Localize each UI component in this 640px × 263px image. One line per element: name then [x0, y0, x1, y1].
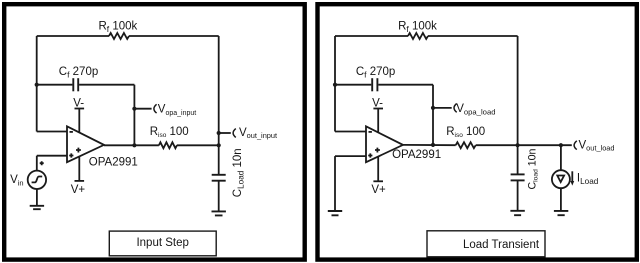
wire feedback right vertical — [218, 36, 220, 145]
pin V- t-bar (right) — [373, 108, 383, 110]
right panel frame — [318, 4, 637, 259]
ground (I_Load) — [554, 211, 568, 215]
wire noninverting input — [37, 155, 67, 157]
wire C_load top (right panel) — [517, 145, 519, 174]
pin V+ t-bar (right) — [373, 180, 383, 182]
node output junction dot (right panel) — [516, 143, 520, 147]
wire feedback top right segment — [129, 35, 219, 37]
wire noninverting ground vertical — [334, 156, 336, 211]
Input Step box — [109, 231, 216, 256]
svg-text:Vin: Vin — [10, 174, 24, 187]
svg-text:Rf 100k: Rf 100k — [398, 20, 437, 34]
left panel frame — [4, 4, 305, 259]
wire C_f right (right panel) — [378, 84, 433, 86]
svg-text:V-: V- — [73, 97, 84, 109]
wire V_opa_load tap — [433, 107, 452, 109]
source V_in waveform — [32, 177, 43, 183]
svg-text:V-: V- — [372, 97, 383, 109]
capacitor C_f — [72, 78, 74, 91]
svg-text:Vopa_load: Vopa_load — [456, 103, 495, 116]
svg-text:Cf 270p: Cf 270p — [59, 66, 98, 80]
svg-text:Riso 100: Riso 100 — [446, 126, 485, 139]
terminal V_out_load — [574, 141, 577, 150]
wire V_out_input tap — [219, 132, 231, 134]
ground (C_load right) — [510, 211, 524, 215]
op-amp minus mark — [70, 131, 73, 133]
svg-text:Cload 10n: Cload 10n — [526, 148, 539, 189]
wire feedback right vertical (right panel) — [517, 36, 519, 145]
node output junction dot — [217, 143, 221, 147]
wire source top — [36, 156, 38, 171]
pin V+ t-bar — [75, 180, 85, 182]
junction dot C_f left — [35, 83, 39, 87]
wire C_f right — [79, 84, 134, 86]
wire feedback top left segment — [37, 35, 109, 37]
source V_in circle — [28, 171, 46, 189]
svg-text:V+: V+ — [371, 184, 386, 196]
svg-text:ILoad: ILoad — [577, 173, 599, 187]
resistor R_iso (left) — [159, 142, 177, 148]
wire inverting input (right panel) — [335, 131, 366, 133]
resistor R_f (right) — [408, 33, 428, 39]
svg-text:Vopa_input: Vopa_input — [158, 104, 196, 117]
pin V+ line (right) — [377, 156, 379, 181]
source polarity plus mark — [40, 161, 44, 165]
svg-text:Vout_load: Vout_load — [579, 139, 615, 152]
op-amp plus input mark (right) — [368, 153, 372, 157]
wire source bottom — [36, 189, 38, 206]
pin V- line — [78, 109, 80, 133]
terminal V_opa_load — [454, 104, 457, 113]
wire feedback top left segment (right panel) — [335, 35, 408, 37]
ground (noninverting input) — [328, 211, 342, 215]
capacitor C_load (right) — [511, 173, 525, 175]
op-amp plus supply mark — [76, 148, 81, 153]
terminal V_out_input — [233, 129, 236, 138]
current source I_Load arrow symbol — [557, 176, 564, 183]
wire C_load bottom (right panel) — [517, 180, 519, 210]
wire noninverting input (right panel) — [335, 155, 366, 157]
pin V+ line — [78, 156, 80, 181]
resistor R_f (left) — [109, 33, 129, 39]
op-amp U1 OPA2991 triangle — [67, 126, 104, 162]
ground (C_load left) — [212, 211, 226, 215]
wire feedback top right segment (right panel) — [428, 35, 518, 37]
wire inverting input — [37, 131, 67, 133]
wire I_load bottom — [560, 188, 562, 211]
svg-text:OPA2991: OPA2991 — [392, 149, 441, 161]
wire V_opa vertical — [133, 85, 135, 146]
wire inverting vertical — [36, 36, 38, 132]
node V_opa_input junction dot — [132, 107, 136, 111]
wire C_load top — [218, 145, 220, 175]
svg-text:Rf 100k: Rf 100k — [98, 20, 137, 34]
capacitor C_load (left) — [212, 174, 226, 176]
wire output right — [177, 144, 219, 146]
terminal V_opa_input — [154, 104, 157, 113]
wire C_f left (right panel) — [335, 84, 371, 86]
wire C_f left — [37, 84, 73, 86]
pin V- line (right) — [377, 109, 379, 133]
svg-text:OPA2991: OPA2991 — [89, 156, 138, 168]
wire C_load bottom — [218, 181, 220, 212]
junction dot C_f left (right panel) — [333, 83, 337, 87]
wire I_load top — [560, 145, 562, 170]
Load Transient box — [427, 231, 545, 257]
svg-text:Load Transient: Load Transient — [463, 239, 540, 251]
svg-text:V+: V+ — [71, 184, 86, 196]
node V_out_input junction dot — [217, 131, 221, 135]
current direction arrow — [571, 171, 573, 181]
wire V_opa_input tap — [134, 108, 151, 110]
svg-text:Vout_input: Vout_input — [239, 127, 277, 140]
wire inverting vertical (right panel) — [334, 36, 336, 132]
node I_load junction dot — [559, 143, 563, 147]
wire V_opa vertical (right panel) — [432, 85, 434, 145]
op-amp minus mark (right) — [369, 131, 372, 133]
svg-text:CLoad 10n: CLoad 10n — [232, 148, 246, 197]
wire op-amp output (right panel) — [403, 144, 456, 146]
op-amp U2 OPA2991 triangle — [366, 126, 403, 162]
op-amp plus input mark — [69, 153, 73, 157]
svg-text:Riso 100: Riso 100 — [150, 126, 189, 139]
current source I_Load circle — [552, 170, 570, 188]
wire output right (right panel) — [476, 144, 572, 146]
resistor R_iso (right) — [456, 142, 476, 148]
svg-text:Cf 270p: Cf 270p — [356, 66, 395, 80]
ground (V_in) — [30, 206, 44, 209]
junction dot op-amp output — [132, 143, 136, 147]
junction dot op-amp output (right panel) — [431, 143, 435, 147]
svg-text:Input Step: Input Step — [136, 237, 188, 249]
pin V- t-bar — [75, 108, 85, 110]
op-amp plus supply mark (right) — [375, 148, 380, 153]
wire op-amp output — [104, 144, 159, 146]
node V_opa_load junction dot — [431, 106, 435, 110]
capacitor C_f (right) — [371, 78, 373, 91]
